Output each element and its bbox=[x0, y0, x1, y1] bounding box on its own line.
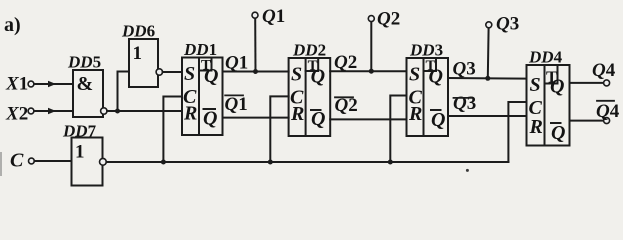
svg-text:S: S bbox=[184, 63, 195, 85]
svg-text:Q1: Q1 bbox=[262, 6, 285, 27]
svg-text:R: R bbox=[529, 116, 543, 138]
wire clock tap to DD3 C bbox=[390, 96, 406, 163]
wire up to terminal Q3 bbox=[487, 28, 490, 79]
svg-text:R: R bbox=[183, 103, 197, 125]
svg-text:X1: X1 bbox=[5, 74, 28, 95]
wire DD3 Q to DD4 S bbox=[448, 77, 527, 80]
output terminal Q1 bbox=[252, 12, 258, 18]
svg-text:Q: Q bbox=[429, 66, 443, 88]
wire junction up to DD6 input bbox=[118, 72, 130, 112]
output terminal Q4 bbox=[604, 80, 610, 86]
wire clock tap to DD4 C bbox=[508, 102, 526, 162]
svg-text:Q3: Q3 bbox=[453, 59, 476, 80]
wire DD1 Qbar to DD2 R bbox=[223, 117, 289, 119]
junction Q3 bbox=[485, 76, 490, 81]
svg-text:Q4: Q4 bbox=[596, 101, 620, 122]
wire DD3 Qbar to DD4 R bbox=[448, 115, 527, 117]
svg-text:DD5: DD5 bbox=[67, 53, 101, 72]
svg-text:R: R bbox=[408, 103, 422, 125]
svg-text:DD2: DD2 bbox=[292, 41, 326, 60]
svg-text:Q2: Q2 bbox=[377, 9, 400, 30]
wire X1 to DD5 bbox=[34, 83, 73, 85]
svg-text:Q3: Q3 bbox=[496, 14, 519, 35]
svg-text:Q1: Q1 bbox=[225, 94, 248, 115]
svg-text:DD1: DD1 bbox=[183, 40, 217, 59]
svg-text:&: & bbox=[77, 73, 94, 95]
svg-text:R: R bbox=[290, 103, 304, 125]
svg-text:S: S bbox=[530, 74, 541, 96]
wire X2 to DD5 bbox=[34, 110, 73, 112]
wire DD1 Q to DD2 S bbox=[223, 71, 289, 73]
svg-text:Q: Q bbox=[311, 108, 325, 130]
junction clock tap DD2 bbox=[268, 160, 273, 165]
wire clock tap to DD2 C bbox=[270, 96, 288, 162]
wire DD5 output to DD1 R bbox=[107, 110, 182, 112]
wire DD4 Qbar to terminal Q4bar bbox=[570, 120, 604, 122]
svg-text:1: 1 bbox=[75, 142, 85, 163]
output terminal Q2 bbox=[368, 16, 374, 22]
wire DD2 Q to DD3 S bbox=[330, 70, 406, 72]
output terminal Q3 bbox=[486, 22, 492, 28]
scan smudge left edge bbox=[0, 152, 2, 176]
svg-text:Q: Q bbox=[203, 108, 217, 130]
svg-text:Q: Q bbox=[311, 66, 325, 88]
wire DD2 Qbar to DD3 R bbox=[330, 118, 406, 120]
junction clock tap DD1 bbox=[161, 160, 166, 165]
svg-text:DD6: DD6 bbox=[121, 22, 155, 41]
wire C to DD7 bbox=[34, 160, 71, 162]
svg-text:Q: Q bbox=[550, 76, 564, 98]
artifact dot bbox=[466, 169, 469, 172]
junction Q1 bbox=[253, 69, 258, 74]
wire clock tap to DD1 C bbox=[163, 97, 182, 163]
svg-text:C: C bbox=[10, 150, 24, 172]
wire DD6 output to DD1 S bbox=[163, 71, 182, 73]
svg-text:Q: Q bbox=[431, 109, 445, 131]
output terminal Q4bar bbox=[604, 118, 610, 124]
wire up to terminal Q2 bbox=[370, 22, 372, 71]
svg-text:DD4: DD4 bbox=[528, 48, 563, 67]
svg-text:Q: Q bbox=[204, 65, 218, 87]
svg-text:Q1: Q1 bbox=[225, 53, 248, 74]
clock line from DD7 across bottom bbox=[106, 161, 508, 163]
junction clock tap DD3 bbox=[388, 160, 393, 165]
svg-text:Q4: Q4 bbox=[592, 60, 616, 81]
svg-text:S: S bbox=[291, 64, 302, 86]
junction Q2 bbox=[369, 69, 374, 74]
svg-text:1: 1 bbox=[133, 43, 143, 64]
svg-text:Q: Q bbox=[551, 122, 565, 144]
svg-text:S: S bbox=[409, 64, 420, 86]
svg-text:a): a) bbox=[4, 14, 21, 36]
junction DD5/DD6 bbox=[115, 109, 120, 114]
svg-text:Q3: Q3 bbox=[453, 93, 476, 114]
svg-text:Q2: Q2 bbox=[334, 52, 357, 73]
wire DD4 Q to terminal Q4 bbox=[570, 82, 604, 84]
svg-text:X2: X2 bbox=[5, 104, 28, 125]
svg-text:DD3: DD3 bbox=[409, 41, 443, 60]
wire up to terminal Q1 bbox=[254, 18, 256, 71]
